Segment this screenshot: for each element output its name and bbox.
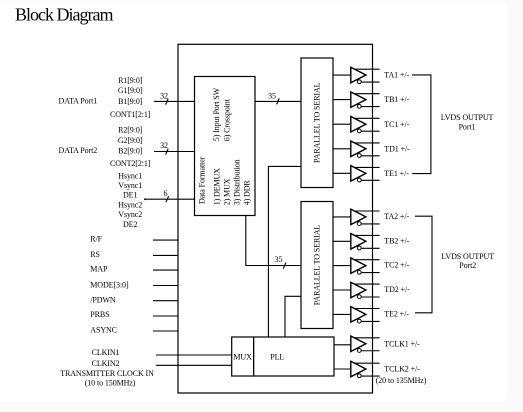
wire PLL to TCLK1 buffer <box>334 344 351 346</box>
svg-text:PARALLEL TO SERIAL: PARALLEL TO SERIAL <box>313 82 322 163</box>
wire PRBS <box>153 315 178 317</box>
svg-text:(20 to 135MHz): (20 to 135MHz) <box>376 376 427 385</box>
LVDS driver buffer TA2 <box>351 209 380 225</box>
LVDS driver buffer TCLK1 <box>351 336 380 352</box>
bracket LVDS output port1 <box>412 75 431 174</box>
pin label TD1 +/- <box>384 144 410 153</box>
svg-text:TB1 +/-: TB1 +/- <box>384 95 409 104</box>
wire 35-bit bus port1 <box>255 92 301 105</box>
LVDS driver buffer TD2 <box>351 282 380 298</box>
wire 32-bit bus port2 <box>154 141 195 155</box>
svg-text:TB2 +/-: TB2 +/- <box>384 236 409 245</box>
pin label TC1 +/- <box>384 120 409 129</box>
port1 signal labels <box>110 76 151 119</box>
pin label TCLK2 +/- <box>384 365 420 374</box>
label LVDS OUTPUT Port2 <box>441 252 494 270</box>
wire MODE <box>153 285 178 287</box>
wire serializer to TB1 buffer <box>333 99 351 101</box>
PLL block <box>254 337 334 376</box>
svg-text:PRBS: PRBS <box>90 310 109 319</box>
svg-text:DATA Port1: DATA Port1 <box>59 97 98 106</box>
LVDS driver buffer TCLK2 <box>351 361 380 377</box>
svg-text:Hsync1: Hsync1 <box>118 172 142 181</box>
svg-text:R1[9:0]: R1[9:0] <box>118 76 143 85</box>
svg-text:Port1: Port1 <box>459 122 476 131</box>
DATA Port1 label <box>59 97 98 106</box>
svg-text:35: 35 <box>268 92 276 101</box>
wire serializer to TC2 buffer <box>333 265 351 267</box>
svg-text:Data Formatter: Data Formatter <box>198 156 207 204</box>
wire serializer to TD2 buffer <box>333 289 351 291</box>
wire serializer to TE2 buffer <box>333 313 351 315</box>
svg-text:32: 32 <box>160 141 168 150</box>
svg-text:Port2: Port2 <box>459 261 476 270</box>
wire serializer to TC1 buffer <box>333 123 351 125</box>
svg-text:CLKIN1: CLKIN1 <box>92 348 120 357</box>
pin label TE2 +/- <box>384 309 409 318</box>
wire R/F <box>153 239 178 241</box>
wire serializer to TA1 buffer <box>333 74 351 76</box>
LVDS driver buffer TB1 <box>351 92 380 108</box>
svg-text:G2[9:0]: G2[9:0] <box>118 136 143 145</box>
sync signal labels <box>118 172 142 229</box>
label LVDS OUTPUT Port1 <box>441 113 494 131</box>
wire MAP <box>153 269 178 271</box>
data formatter label <box>198 156 207 204</box>
pin label TB2 +/- <box>384 236 409 245</box>
svg-text:TCLK2 +/-: TCLK2 +/- <box>384 365 420 374</box>
svg-text:TD2 +/-: TD2 +/- <box>384 285 410 294</box>
svg-text:TC1 +/-: TC1 +/- <box>384 120 409 129</box>
svg-text:2) MUX: 2) MUX <box>223 178 232 205</box>
svg-text:TE1 +/-: TE1 +/- <box>384 169 409 178</box>
wire 6-bit sync bus <box>144 189 195 202</box>
svg-text:LVDS OUTPUT: LVDS OUTPUT <box>441 113 494 122</box>
pin label TB1 +/- <box>384 95 409 104</box>
svg-text:TD1 +/-: TD1 +/- <box>384 144 410 153</box>
LVDS driver buffer TD1 <box>351 141 380 157</box>
wire CLKIN1 <box>156 354 232 356</box>
LVDS driver buffer TA1 <box>351 67 380 83</box>
label (20 to 135MHz) <box>376 376 427 385</box>
svg-text:DE1: DE1 <box>123 191 137 200</box>
LVDS driver buffer TE2 <box>351 307 380 323</box>
control labels <box>90 235 129 335</box>
svg-text:R2[9:0]: R2[9:0] <box>118 126 143 135</box>
svg-text:TRANSMITTER CLOCK IN: TRANSMITTER CLOCK IN <box>60 369 154 378</box>
port2 signal labels <box>110 126 151 168</box>
wire serializer to TA2 buffer <box>333 216 351 218</box>
MUX block <box>232 337 254 376</box>
svg-text:G1[9:0]: G1[9:0] <box>118 86 143 95</box>
clock labels <box>60 348 154 387</box>
wire 32-bit bus port1 <box>154 92 195 105</box>
svg-text:TC2 +/-: TC2 +/- <box>384 261 409 270</box>
svg-text:Block Diagram: Block Diagram <box>15 5 113 25</box>
label 5) Input Port SW <box>212 87 221 141</box>
wire 35-bit bus port2 <box>246 216 301 269</box>
LVDS driver buffer TC2 <box>351 258 380 274</box>
svg-text:MAP: MAP <box>90 265 108 274</box>
svg-text:MODE[3:0]: MODE[3:0] <box>90 280 129 289</box>
svg-text:PARALLEL TO SERIAL: PARALLEL TO SERIAL <box>312 225 321 306</box>
pin label TE1 +/- <box>384 169 409 178</box>
label 2) MUX <box>223 178 232 205</box>
svg-text:TCLK1 +/-: TCLK1 +/- <box>384 339 420 348</box>
wire /PDWN <box>153 300 178 302</box>
LVDS driver buffer TB2 <box>351 234 380 250</box>
label 4) DDR <box>243 180 252 206</box>
svg-text:6) Crosspoint: 6) Crosspoint <box>223 98 232 141</box>
pin label TC2 +/- <box>384 261 409 270</box>
label 1) DEMUX <box>212 168 221 206</box>
wire RS <box>153 254 178 256</box>
svg-text:CLKIN2: CLKIN2 <box>92 359 120 368</box>
svg-text:ASYNC: ASYNC <box>90 325 117 334</box>
data formatter block <box>195 77 256 216</box>
svg-text:R/F: R/F <box>90 235 102 244</box>
wire PLL clock to serializer2 <box>285 296 301 337</box>
svg-text:MUX: MUX <box>233 353 252 362</box>
wire serializer to TD1 buffer <box>333 148 351 150</box>
pin label TD2 +/- <box>384 285 410 294</box>
svg-text:DATA Port2: DATA Port2 <box>59 146 98 155</box>
svg-text:B2[9:0]: B2[9:0] <box>118 146 143 155</box>
LVDS driver buffer TC1 <box>351 116 380 132</box>
label 3) Distribution <box>233 159 242 205</box>
svg-text:TA1 +/-: TA1 +/- <box>384 71 409 80</box>
wire ASYNC <box>153 330 178 332</box>
svg-text:4) DDR: 4) DDR <box>243 180 252 206</box>
pin label TA1 +/- <box>384 71 409 80</box>
svg-text:PLL: PLL <box>270 353 284 362</box>
svg-text:DE2: DE2 <box>123 220 137 229</box>
svg-text:/PDWN: /PDWN <box>90 295 116 304</box>
svg-text:(10 to 150MHz): (10 to 150MHz) <box>85 379 136 388</box>
svg-text:1) DEMUX: 1) DEMUX <box>212 168 221 206</box>
parallel to serial block 2 <box>301 202 333 329</box>
chip outer box <box>178 44 373 393</box>
svg-text:TE2 +/-: TE2 +/- <box>384 309 409 318</box>
wire serializer to TE1 buffer <box>333 172 351 174</box>
svg-text:35: 35 <box>275 255 283 264</box>
wire PLL clock to serializer1 <box>268 166 301 337</box>
svg-text:5) Input Port SW: 5) Input Port SW <box>212 87 221 141</box>
svg-text:Vsync1: Vsync1 <box>118 181 142 190</box>
svg-text:32: 32 <box>160 92 168 101</box>
svg-text:6: 6 <box>164 189 168 198</box>
svg-text:Vsync2: Vsync2 <box>118 210 142 219</box>
DATA Port2 label <box>59 146 98 155</box>
wire serializer to TB2 buffer <box>333 240 351 242</box>
svg-text:B1[9:0]: B1[9:0] <box>118 97 143 106</box>
svg-text:TA2 +/-: TA2 +/- <box>384 212 409 221</box>
label 6) Crosspoint <box>223 98 232 141</box>
pin label TCLK1 +/- <box>384 339 420 348</box>
LVDS driver buffer TE1 <box>351 166 380 182</box>
wire CLKIN2 <box>156 364 232 366</box>
bracket LVDS output port2 <box>415 216 432 313</box>
parallel to serial block 1 <box>301 58 333 188</box>
svg-text:CONT1[2:1]: CONT1[2:1] <box>110 110 151 119</box>
wire PLL to TCLK2 buffer <box>334 368 351 370</box>
svg-text:3) Distribution: 3) Distribution <box>233 159 242 205</box>
svg-text:CONT2[2:1]: CONT2[2:1] <box>110 159 151 168</box>
svg-text:Hsync2: Hsync2 <box>118 200 142 209</box>
svg-text:RS: RS <box>90 250 100 259</box>
pin label TA2 +/- <box>384 212 409 221</box>
svg-text:LVDS OUTPUT: LVDS OUTPUT <box>441 252 494 261</box>
